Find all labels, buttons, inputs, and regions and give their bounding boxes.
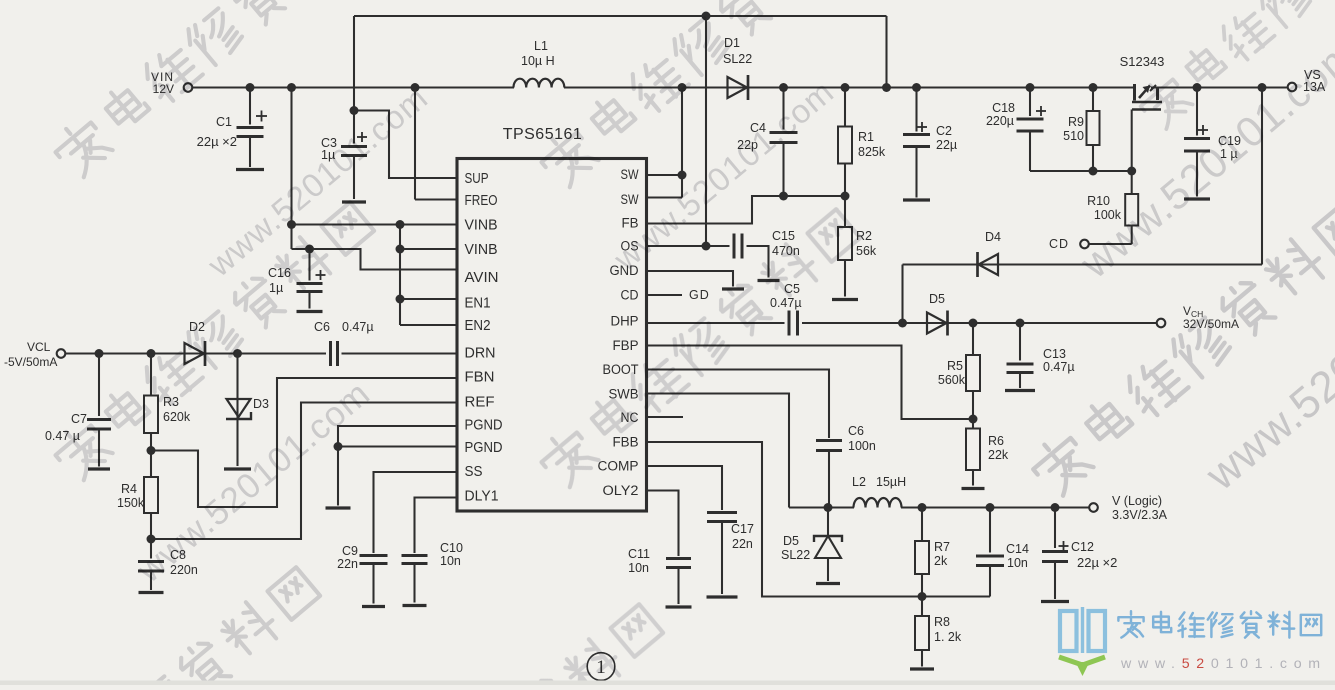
- svg-text:SW: SW: [621, 192, 639, 208]
- svg-text:C10: C10: [440, 541, 463, 555]
- svg-text:0.47µ: 0.47µ: [342, 320, 374, 334]
- svg-text:V (Logic): V (Logic): [1112, 494, 1162, 508]
- svg-text:22n: 22n: [337, 557, 358, 571]
- svg-text:150k: 150k: [117, 496, 145, 510]
- svg-text:10n: 10n: [628, 561, 649, 575]
- svg-text:AVIN: AVIN: [465, 270, 499, 286]
- svg-text:L1: L1: [534, 39, 548, 53]
- svg-text:FBN: FBN: [465, 370, 495, 386]
- svg-text:56k: 56k: [856, 244, 877, 258]
- svg-text:VINB: VINB: [465, 242, 498, 258]
- svg-text:R5: R5: [947, 359, 963, 373]
- svg-text:D3: D3: [253, 397, 269, 411]
- svg-text:510: 510: [1063, 129, 1084, 143]
- svg-text:-5V/50mA: -5V/50mA: [4, 355, 57, 369]
- svg-text:DLY1: DLY1: [465, 489, 499, 505]
- svg-text:FREO: FREO: [465, 193, 498, 209]
- svg-text:1µ: 1µ: [269, 281, 283, 295]
- svg-text:CD: CD: [621, 288, 639, 304]
- svg-text:C6: C6: [848, 424, 864, 438]
- svg-text:15µH: 15µH: [876, 475, 906, 489]
- svg-text:www.520101.com: www.520101.com: [1120, 656, 1327, 672]
- svg-text:C18: C18: [992, 101, 1015, 115]
- svg-text:620k: 620k: [163, 410, 191, 424]
- svg-text:R1: R1: [858, 130, 874, 144]
- svg-text:10n: 10n: [1007, 556, 1028, 570]
- svg-text:R10: R10: [1087, 194, 1110, 208]
- svg-text:R8: R8: [934, 615, 950, 629]
- svg-text:SW: SW: [621, 167, 639, 183]
- svg-text:C7: C7: [71, 412, 87, 426]
- svg-text:EN2: EN2: [465, 318, 491, 334]
- svg-text:EN1: EN1: [465, 296, 491, 312]
- svg-text:VINB: VINB: [465, 218, 498, 234]
- svg-text:C2: C2: [936, 124, 952, 138]
- svg-text:L2: L2: [852, 475, 866, 489]
- svg-text:FBP: FBP: [613, 338, 639, 354]
- svg-text:220µ: 220µ: [986, 114, 1014, 128]
- svg-text:C17: C17: [731, 522, 754, 536]
- svg-text:R6: R6: [988, 434, 1004, 448]
- svg-text:C13: C13: [1043, 347, 1066, 361]
- svg-text:100n: 100n: [848, 439, 876, 453]
- svg-text:VCL: VCL: [27, 340, 51, 354]
- svg-text:C9: C9: [342, 544, 358, 558]
- svg-text:R9: R9: [1068, 115, 1084, 129]
- svg-text:R4: R4: [121, 482, 137, 496]
- svg-text:22n: 22n: [732, 537, 753, 551]
- svg-text:S12343: S12343: [1120, 54, 1165, 69]
- svg-text:22µ ×2: 22µ ×2: [197, 134, 237, 149]
- svg-text:1. 2k: 1. 2k: [934, 630, 962, 644]
- svg-text:SL22: SL22: [781, 548, 810, 562]
- svg-text:C14: C14: [1006, 542, 1029, 556]
- svg-text:0.47µ: 0.47µ: [770, 296, 802, 310]
- svg-text:560k: 560k: [938, 373, 966, 387]
- svg-text:22µ ×2: 22µ ×2: [1077, 555, 1117, 570]
- svg-text:SUP: SUP: [465, 171, 489, 187]
- svg-text:DRN: DRN: [465, 346, 496, 362]
- svg-text:3.3V/2.3A: 3.3V/2.3A: [1112, 508, 1168, 522]
- svg-text:D5: D5: [783, 534, 799, 548]
- svg-text:OLY2: OLY2: [603, 483, 639, 499]
- svg-text:C12: C12: [1071, 540, 1094, 554]
- svg-text:DHP: DHP: [611, 314, 639, 330]
- svg-text:C11: C11: [628, 547, 650, 561]
- svg-text:10n: 10n: [440, 554, 461, 568]
- svg-text:2k: 2k: [934, 554, 948, 568]
- svg-text:C15: C15: [772, 229, 795, 243]
- svg-text:C1: C1: [216, 115, 232, 129]
- svg-text:C6: C6: [314, 320, 330, 334]
- svg-text:R7: R7: [934, 540, 950, 554]
- svg-text:PGND: PGND: [465, 440, 503, 456]
- svg-text:REF: REF: [465, 395, 495, 411]
- svg-text:PGND: PGND: [465, 418, 503, 434]
- svg-text:D4: D4: [985, 230, 1001, 244]
- svg-text:GD: GD: [689, 288, 710, 302]
- svg-text:0.47µ: 0.47µ: [1043, 360, 1075, 374]
- svg-text:825k: 825k: [858, 145, 886, 159]
- svg-text:D5: D5: [929, 292, 945, 306]
- svg-text:22k: 22k: [988, 448, 1009, 462]
- svg-text:CD: CD: [1049, 237, 1069, 251]
- svg-text:22µ: 22µ: [936, 138, 957, 152]
- svg-text:COMP: COMP: [598, 459, 639, 475]
- svg-text:10µ H: 10µ H: [521, 54, 555, 68]
- svg-text:SL22: SL22: [723, 52, 752, 66]
- svg-text:SS: SS: [465, 464, 483, 480]
- svg-text:FBB: FBB: [613, 435, 639, 451]
